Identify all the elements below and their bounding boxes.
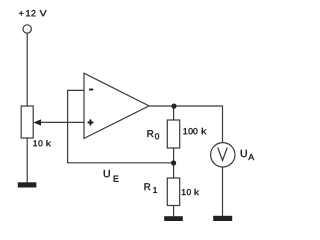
- wire R0 bottom through node B to R1 top: [173, 148, 175, 178]
- ground symbol under potentiometer: [18, 182, 37, 187]
- wire right rail down to voltmeter: [222, 105, 224, 142]
- ground symbol under R1: [164, 216, 183, 221]
- wire voltmeter bottom to ground: [222, 167, 224, 216]
- wire wiper to op-amp non-inverting input: [41, 121, 85, 123]
- label R1: [145, 183, 158, 193]
- label UA output voltage: [241, 150, 254, 160]
- node A junction dot: [171, 104, 176, 109]
- wire terminal to potentiometer top: [26, 33, 28, 106]
- wire node A down to R0: [173, 106, 175, 120]
- wire potentiometer bottom to ground: [26, 138, 28, 183]
- ground symbol under voltmeter: [213, 216, 232, 221]
- label 100 k value of R0: [183, 128, 206, 134]
- label 10 k value of R1: [182, 189, 199, 195]
- node B junction dot: [171, 160, 176, 165]
- op-amp U1 triangle: [84, 73, 149, 138]
- resistor R1 body 10 k: [167, 178, 179, 206]
- voltmeter V glyph: [218, 148, 227, 160]
- node +12V supply terminal circle: [23, 25, 31, 33]
- wire R1 bottom to ground: [173, 206, 175, 217]
- potentiometer P1 body 10 k: [21, 106, 33, 138]
- op-amp non-inverting input plus sign: [88, 120, 93, 126]
- potentiometer wiper arrowhead: [33, 119, 41, 125]
- wire op-amp output to right rail corner: [149, 105, 223, 107]
- op-amp inverting input minus sign: [89, 89, 93, 90]
- label + 12 V: [19, 10, 46, 16]
- voltmeter M1 circle: [211, 143, 235, 167]
- resistor R0 body 100 k: [167, 120, 179, 148]
- label 10 k potentiometer value: [33, 140, 51, 146]
- label R0: [148, 130, 160, 139]
- wire feedback vertical segment: [67, 90, 69, 163]
- label UE input voltage: [104, 170, 119, 182]
- wire feedback horizontal segment to node B: [67, 162, 174, 164]
- wire inverting input stub: [68, 89, 84, 91]
